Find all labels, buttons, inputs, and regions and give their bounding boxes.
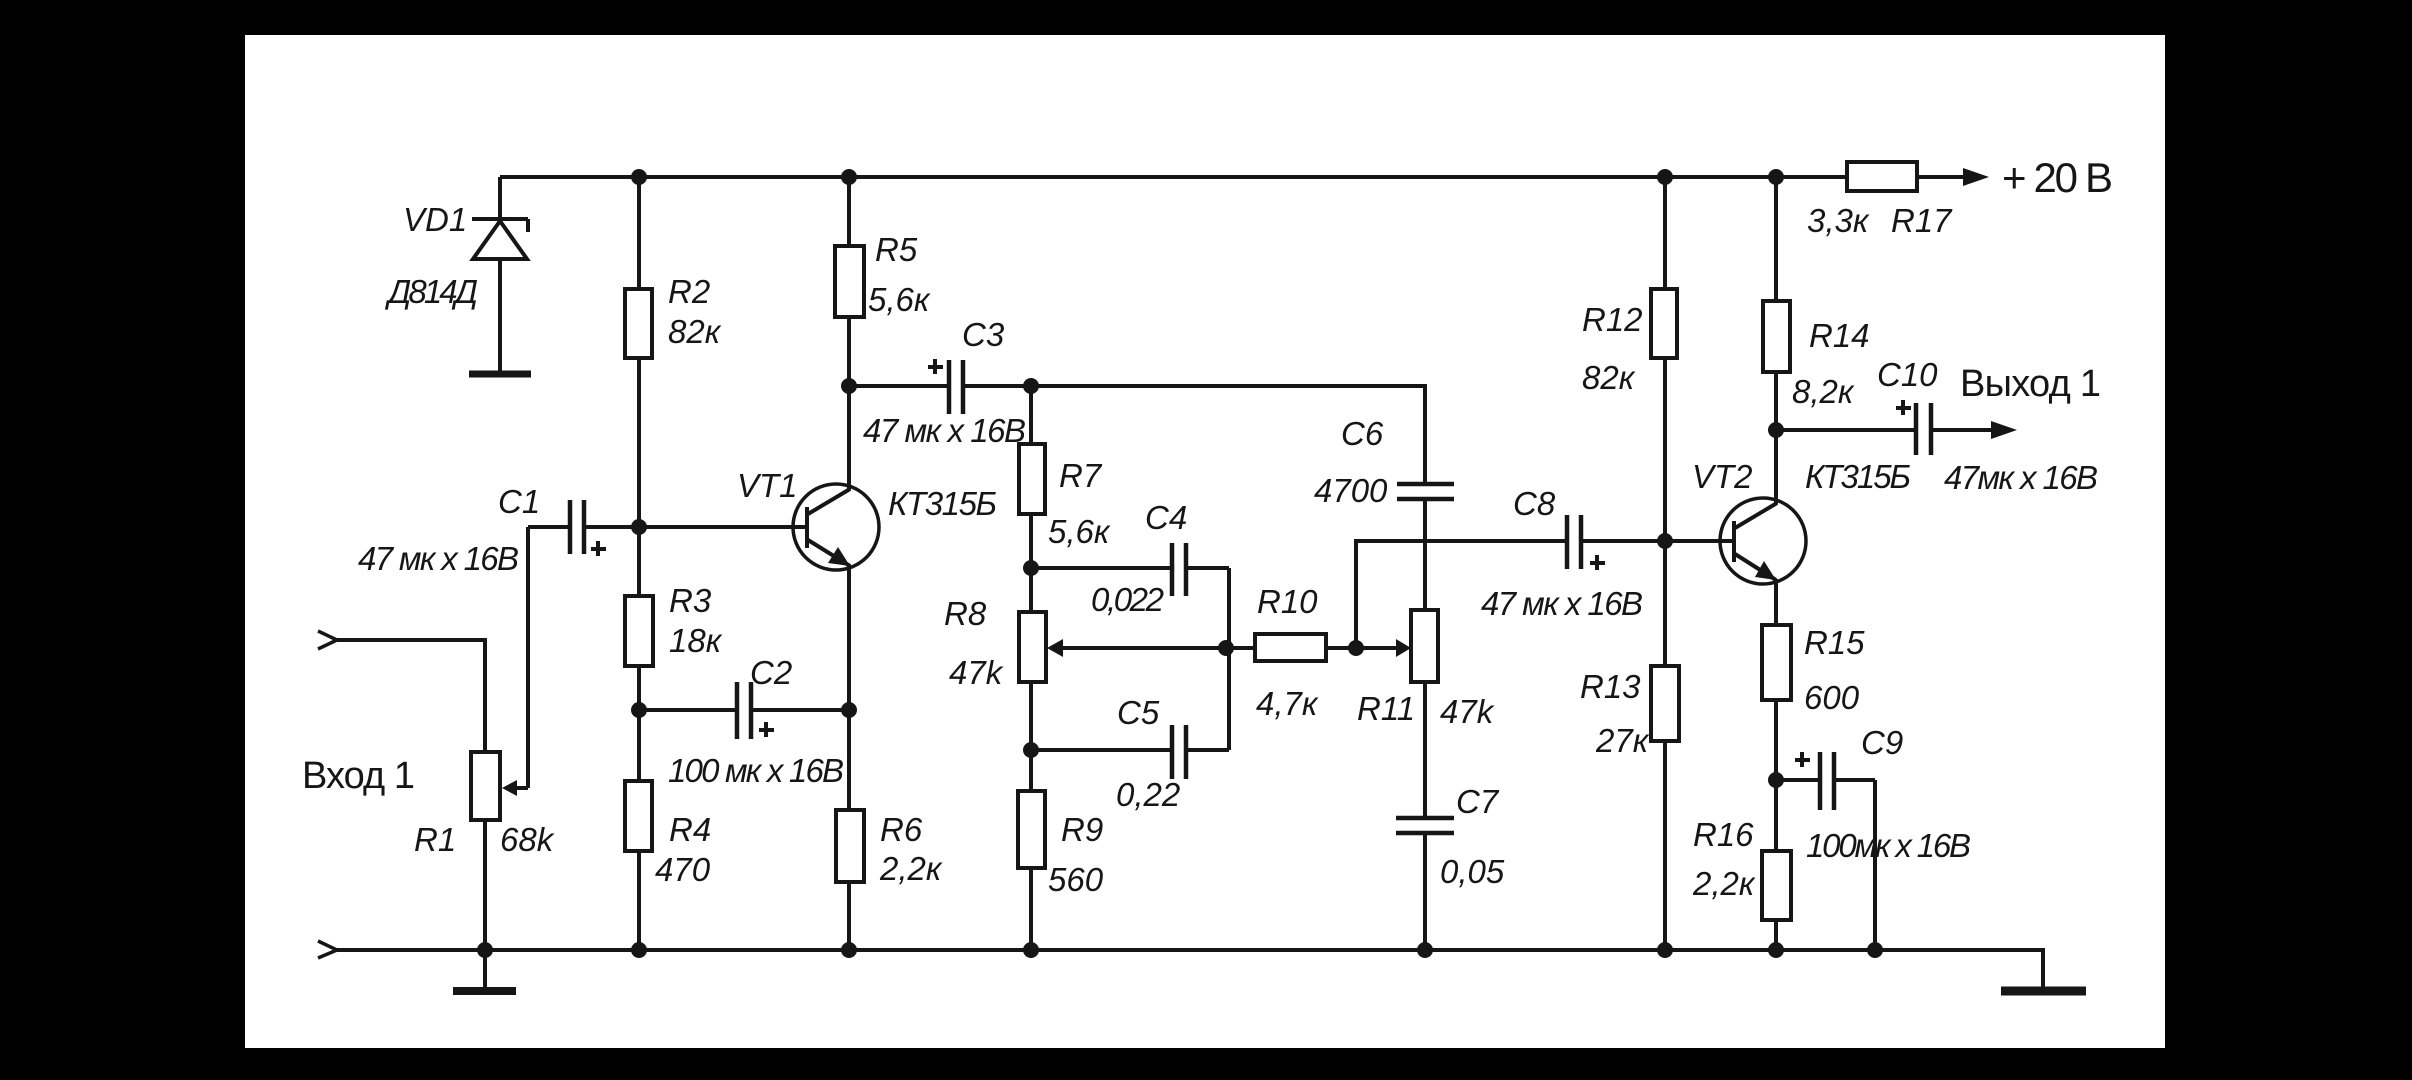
capacitor C9 (100мк x 16В)	[1776, 752, 1875, 950]
svg-text:5,6к: 5,6к	[1048, 513, 1111, 550]
resistor R3 (18к)	[625, 527, 653, 710]
svg-text:R1: R1	[414, 821, 456, 858]
svg-text:4,7к: 4,7к	[1256, 685, 1319, 722]
wire: +20V power rail	[500, 175, 1847, 179]
svg-text:47 мк x 16В: 47 мк x 16В	[358, 540, 519, 577]
resistor R17 (3,3к)	[1847, 162, 1963, 191]
svg-text:R9: R9	[1061, 811, 1103, 848]
svg-text:C7: C7	[1456, 783, 1500, 820]
svg-text:C8: C8	[1513, 485, 1556, 522]
svg-text:27к: 27к	[1595, 722, 1650, 759]
svg-text:R8: R8	[944, 595, 987, 632]
svg-text:18к: 18к	[669, 622, 723, 659]
svg-text:600: 600	[1804, 679, 1860, 716]
svg-text:0,022: 0,022	[1091, 581, 1164, 618]
capacitor C1 (47 мк x 16В)	[528, 500, 639, 556]
svg-text:R16: R16	[1693, 816, 1754, 853]
capacitor C4 (0,022)	[1031, 543, 1229, 596]
capacitor C10 (47мк x 16В)	[1776, 400, 1993, 455]
svg-text:82к: 82к	[668, 313, 722, 350]
svg-text:Выход 1: Выход 1	[1960, 363, 2101, 405]
svg-text:2,2к: 2,2к	[879, 850, 943, 887]
svg-text:C2: C2	[750, 654, 792, 691]
node: input ground arrow	[318, 941, 337, 958]
svg-text:R3: R3	[669, 582, 712, 619]
svg-text:560: 560	[1048, 861, 1104, 898]
svg-text:R11: R11	[1357, 690, 1415, 727]
svg-text:VT2: VT2	[1692, 458, 1753, 495]
svg-text:VT1: VT1	[737, 467, 798, 504]
svg-text:3,3к: 3,3к	[1807, 202, 1870, 239]
svg-text:47 мк x 16В: 47 мк x 16В	[1481, 585, 1643, 622]
svg-text:R4: R4	[669, 811, 711, 848]
svg-text:100мк x 16В: 100мк x 16В	[1806, 827, 1971, 864]
svg-text:R17: R17	[1891, 202, 1953, 239]
wire: C3 node to C6 top	[1031, 386, 1425, 482]
svg-text:47мк x 16В: 47мк x 16В	[1944, 459, 2098, 496]
resistor R16 (2,2к)	[1762, 780, 1791, 950]
svg-text:VD1: VD1	[403, 201, 467, 238]
resistor R2 (82к)	[625, 177, 652, 527]
capacitor C2 (100 мк x 16В)	[639, 682, 849, 739]
svg-text:R12: R12	[1582, 301, 1643, 338]
svg-text:Вход 1: Вход 1	[302, 755, 415, 797]
wire: VT2 base wire	[1665, 539, 1734, 543]
svg-text:R2: R2	[668, 273, 710, 310]
resistor R6 (2,2к)	[836, 710, 864, 950]
resistor R7 (5,6к)	[1019, 386, 1045, 568]
svg-text:0,05: 0,05	[1440, 853, 1505, 890]
svg-text:470: 470	[655, 851, 711, 888]
transistor VT2 (КТ315Б)	[1720, 430, 1806, 625]
potentiometer R1 (68k)	[471, 752, 528, 950]
resistor R14 (8,2к)	[1763, 177, 1790, 430]
resistor R15 (600)	[1762, 625, 1791, 780]
resistor R4 (470)	[625, 710, 652, 950]
wire: ground bottom rail	[337, 950, 2043, 987]
capacitor C3 (47 мк x 16В)	[849, 359, 1031, 414]
svg-text:C6: C6	[1341, 415, 1384, 452]
svg-text:47 мк x 16В: 47 мк x 16В	[863, 412, 1026, 449]
resistor R12 (82к)	[1651, 177, 1677, 541]
ground (below VD1)	[469, 371, 531, 378]
svg-text:5,6к: 5,6к	[868, 281, 931, 318]
zener diode VD1 (Д814Д)	[472, 177, 528, 371]
svg-text:+ 20 В: + 20 В	[2002, 154, 2113, 201]
ground (right, main)	[2001, 987, 2086, 996]
svg-text:0,22: 0,22	[1116, 776, 1180, 813]
node: +20V arrow	[1963, 168, 1989, 186]
node: output arrow Выход 1	[1991, 421, 2017, 439]
svg-text:R6: R6	[880, 811, 923, 848]
capacitor C8 (47 мк x 16В)	[1567, 515, 1665, 570]
resistor R13 (27к)	[1651, 541, 1679, 950]
svg-text:R13: R13	[1580, 668, 1641, 705]
capacitor C6 (4700)	[1397, 484, 1454, 610]
svg-text:R10: R10	[1257, 583, 1318, 620]
wire: C4/C5 right vertical	[1227, 568, 1231, 750]
svg-text:C1: C1	[498, 483, 540, 520]
svg-text:C4: C4	[1145, 499, 1187, 536]
svg-text:C9: C9	[1861, 724, 1903, 761]
wire: VT1 base wire	[639, 525, 807, 529]
svg-text:R14: R14	[1809, 317, 1870, 354]
transistor VT1 (КТ315Б)	[793, 386, 879, 710]
svg-text:C10: C10	[1877, 356, 1938, 393]
svg-text:R7: R7	[1059, 457, 1103, 494]
wire: R10/R11 node up and right to C8	[1356, 541, 1565, 648]
wire: C1 left lead down to R1 wiper	[526, 527, 530, 788]
svg-text:Д814Д: Д814Д	[384, 273, 478, 310]
svg-text:47k: 47k	[1440, 693, 1495, 730]
resistor R5 (5,6к)	[835, 177, 864, 386]
svg-text:КТ315Б: КТ315Б	[1805, 458, 1911, 495]
svg-text:R5: R5	[875, 231, 918, 268]
svg-text:КТ315Б: КТ315Б	[888, 485, 997, 522]
resistor R9 (560)	[1018, 750, 1045, 950]
svg-text:C5: C5	[1117, 694, 1160, 731]
potentiometer R8 (47k)	[1019, 568, 1226, 750]
svg-text:8,2к: 8,2к	[1792, 373, 1855, 410]
svg-text:82к: 82к	[1582, 359, 1636, 396]
svg-text:C3: C3	[962, 316, 1005, 353]
svg-text:R15: R15	[1804, 624, 1865, 661]
capacitor C5 (0,22)	[1031, 725, 1229, 779]
resistor R10 (4,7к)	[1226, 634, 1356, 661]
ground (below R1)	[453, 950, 516, 991]
potentiometer R11 (47k)	[1356, 610, 1438, 816]
svg-text:47k: 47k	[949, 654, 1004, 691]
svg-text:4700: 4700	[1314, 472, 1388, 509]
svg-text:68k: 68k	[500, 821, 555, 858]
capacitor C7 (0,05)	[1396, 818, 1454, 950]
node: input arrow	[318, 631, 337, 649]
svg-text:2,2к: 2,2к	[1692, 865, 1756, 902]
wire: input to R1 top	[337, 640, 485, 752]
svg-text:100 мк x 16В: 100 мк x 16В	[668, 752, 844, 789]
